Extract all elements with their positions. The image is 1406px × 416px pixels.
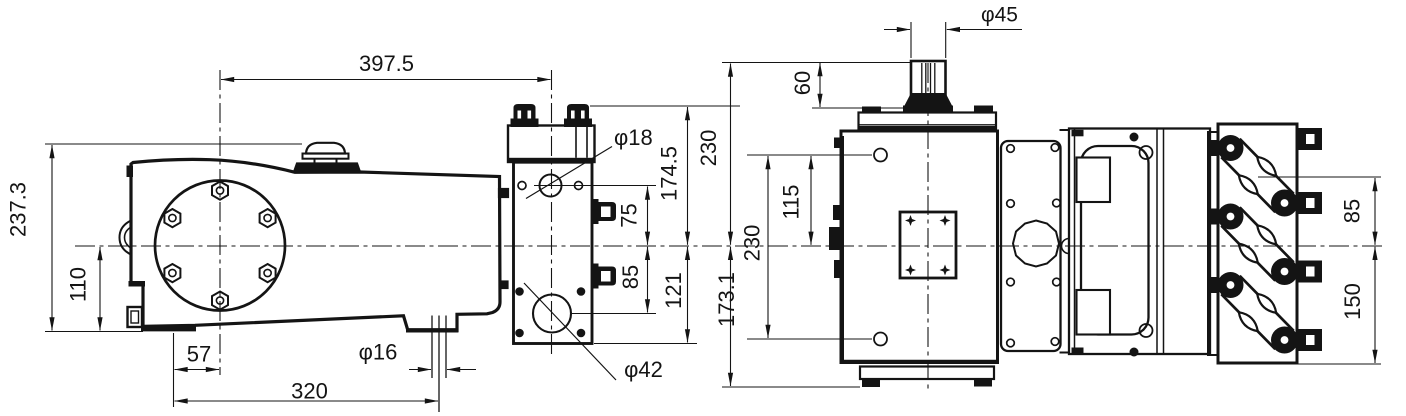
- dim 230 right-view line: [767, 156, 769, 338]
- top plate inner line: [859, 124, 997, 126]
- port bolt row 4 (black hex): [1297, 329, 1322, 351]
- ext block top: [590, 105, 740, 107]
- bearing housing cover plate (rounded): [1001, 141, 1061, 351]
- svg-text:85: 85: [1340, 199, 1365, 223]
- oil filler cap base pad (black): [294, 164, 360, 173]
- svg-text:173.1: 173.1: [714, 272, 739, 327]
- svg-text:121: 121: [661, 272, 686, 309]
- body/block connector bottom: [501, 282, 508, 289]
- cradle corner black marks: [1072, 130, 1084, 137]
- cradle inner line right 2: [1163, 129, 1165, 355]
- dim 60 line: [819, 63, 821, 107]
- dim 85 line: [647, 247, 649, 313]
- cradle inner line left: [1074, 129, 1076, 355]
- svg-text:174.5: 174.5: [657, 146, 682, 201]
- capsule notch rect lower: [1077, 290, 1111, 335]
- vertical centerline valve block (side view): [551, 70, 553, 357]
- svg-text:237.3: 237.3: [6, 182, 31, 237]
- port bolt row 3 (black hex): [1297, 261, 1322, 283]
- svg-text:110: 110: [66, 267, 91, 302]
- ext foot bottom right view: [722, 386, 860, 388]
- svg-text:397.5: 397.5: [359, 51, 414, 76]
- dim 75 line: [647, 187, 649, 245]
- discharge valve cap row 1 (black): [1271, 190, 1298, 217]
- bearing cover bump on left edge: [120, 221, 132, 255]
- φ18 gauge port circle: [540, 175, 562, 197]
- crankcase left edge (thick): [840, 136, 844, 362]
- dim 230 left line: [730, 64, 732, 245]
- ext foot bottom: [45, 331, 143, 333]
- crankcase bottom edge (thick): [843, 360, 997, 363]
- svg-text:57: 57: [187, 342, 211, 367]
- oil filler cap lip: [303, 154, 349, 159]
- stud nut left (black): [511, 104, 539, 127]
- dim 320 line: [175, 400, 439, 402]
- stud nut right (black): [564, 104, 592, 127]
- capsule corner open circles: [1140, 146, 1153, 159]
- dim 121 line: [687, 247, 689, 343]
- dim 85 right-view line: [1374, 178, 1376, 245]
- head plate bottom black band: [509, 158, 595, 162]
- dim 397.5 line: [221, 79, 551, 81]
- fluid end block: [1218, 124, 1297, 363]
- ext shaft base: [812, 107, 906, 109]
- drive shaft (top): [911, 61, 946, 106]
- crankcase left-edge tabs (black): [834, 138, 842, 149]
- ext shaft shoulder: [722, 62, 911, 64]
- port bolt row 2 (black hex): [1297, 192, 1322, 214]
- φ42 leader line: [524, 283, 616, 380]
- vertical centerline crankshaft (side view): [219, 70, 221, 375]
- sight glass opening (faceted circle): [1013, 221, 1059, 267]
- small port left: [518, 182, 526, 190]
- discharge valve cap row 3 (black): [1271, 327, 1298, 354]
- suction valve cap row 1 (black): [1209, 135, 1244, 161]
- shaft base plate (black): [903, 106, 953, 113]
- ext hole row bottom: [747, 338, 872, 340]
- crankcase rectangle: [841, 131, 998, 363]
- oil filler cap dome: [306, 143, 345, 154]
- svg-text:230: 230: [696, 130, 721, 167]
- top plate corner bolt tabs (black): [862, 107, 881, 114]
- bottom plate feet (black): [862, 379, 880, 387]
- dim φ16 arrows: [409, 369, 431, 371]
- dim 115 line: [810, 156, 812, 245]
- svg-text:320: 320: [291, 379, 328, 404]
- svg-text:φ45: φ45: [981, 4, 1018, 27]
- top/bottom edge segments behind plate: [1060, 129, 1070, 131]
- left edge small arc bump: [1062, 239, 1070, 254]
- head plate inner lines: [575, 126, 577, 158]
- fluid end spacer plate: [1208, 132, 1218, 355]
- ext block bottom: [594, 343, 697, 345]
- capsule corner dots (black): [1130, 133, 1139, 142]
- φ42 suction circle: [533, 295, 571, 333]
- suction valve cap row 3 (black): [1209, 272, 1244, 298]
- flange bolt hole upper: [874, 149, 887, 162]
- suction valve cap row 2 (black): [1209, 204, 1244, 230]
- gear/cradle housing rectangle: [1069, 129, 1210, 355]
- shaft base flare (black): [904, 93, 953, 107]
- dim 57 line: [175, 369, 220, 371]
- svg-text:230: 230: [740, 225, 765, 262]
- head plate: [508, 126, 595, 163]
- svg-text:150: 150: [1340, 283, 1365, 320]
- svg-text:60: 60: [790, 71, 815, 95]
- ext foot hole: [173, 333, 175, 407]
- vertical centerline shaft (top view): [927, 63, 929, 393]
- capsule notch rect upper: [1077, 158, 1111, 203]
- ext valve row 1 level: [1258, 176, 1381, 178]
- flange bolt hole lower: [874, 333, 887, 346]
- φ18 leader line: [526, 147, 612, 199]
- dim φ45 arrows: [884, 29, 910, 31]
- cylinder capsule outline: [1081, 146, 1149, 335]
- discharge valve cap row 2 (black): [1271, 258, 1298, 285]
- left edge step corner (black): [129, 281, 146, 287]
- crankcase flange circle: [155, 181, 285, 311]
- discharge plug 1 (black): [592, 199, 616, 224]
- ext φ18 level: [534, 185, 656, 187]
- dim 173.1 line: [730, 247, 732, 386]
- flange bolt hexagons (6x): [164, 182, 275, 310]
- dim 150 line: [1374, 247, 1376, 363]
- top plate dark band: [860, 126, 996, 131]
- valve assembly row 1 (diagonal link): [1221, 139, 1293, 212]
- bottom mounting plate: [860, 367, 994, 380]
- svg-text:φ42: φ42: [624, 357, 663, 382]
- ext fluid end bottom: [1296, 363, 1381, 365]
- φ16 foot hole lines: [432, 316, 446, 413]
- ext cap top: [45, 143, 302, 145]
- valve block body: [514, 162, 593, 343]
- top mounting plate: [859, 113, 997, 132]
- svg-text:φ16: φ16: [359, 340, 398, 365]
- svg-text:85: 85: [618, 265, 643, 289]
- svg-text:φ18: φ18: [614, 125, 653, 150]
- discharge plug 2 (black): [592, 264, 616, 289]
- svg-text:75: 75: [617, 203, 642, 227]
- valve assembly row 3 (diagonal link): [1221, 276, 1293, 349]
- small port right: [575, 182, 583, 190]
- ext φ45 verticals: [910, 22, 912, 58]
- inspection cover rectangle: [900, 212, 956, 278]
- port bolt row 1 (black hex): [1297, 128, 1322, 150]
- pump body outline: [131, 159, 500, 330]
- right foot sole: [406, 328, 458, 332]
- body/block connector top: [499, 189, 508, 197]
- shaft keyway lines: [922, 63, 935, 98]
- block corner holes (4x): [515, 287, 585, 337]
- dim 174.5 line: [687, 107, 689, 245]
- ext φ42 level: [572, 313, 656, 315]
- top-left corner tab: [127, 166, 134, 178]
- valve assembly row 2 (diagonal link): [1221, 207, 1293, 280]
- horizontal centerline: [75, 245, 1382, 247]
- drain fitting bottom-left: [128, 307, 143, 327]
- svg-text:115: 115: [779, 184, 804, 219]
- left foot (thick sole): [141, 326, 196, 332]
- dim 237.3 line: [51, 145, 53, 331]
- cover plate bolt holes (8x): [1007, 144, 1061, 347]
- inspection cover corner star marks: [905, 215, 951, 276]
- cradle inner line right 1: [1156, 129, 1158, 355]
- dim 110 line: [99, 247, 101, 331]
- oil filler cap neck: [314, 159, 316, 164]
- ext hole row top: [747, 154, 872, 156]
